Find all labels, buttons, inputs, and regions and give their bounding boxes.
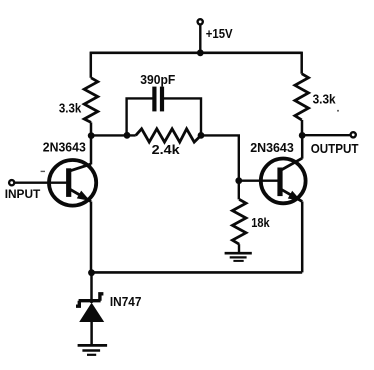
wire node A horizontal bbox=[91, 134, 136, 136]
stray mark bbox=[41, 170, 45, 172]
node Q2 base dot bbox=[235, 177, 242, 184]
Q2 emitter diagonal bbox=[280, 189, 302, 202]
wire Q2 emitter vertical bbox=[301, 202, 304, 273]
Q2 emitter arrow bbox=[288, 191, 301, 201]
transistor Q2 2N3643 (right) bbox=[261, 159, 306, 204]
terminal +15V bbox=[198, 19, 203, 24]
wire node A to Q2 base column bbox=[201, 135, 239, 180]
wire Q1 emitter vertical bbox=[90, 202, 93, 273]
Q2 base bar bbox=[277, 168, 282, 197]
transistor Q1 2N3643 (left) bbox=[49, 160, 96, 206]
wire zener bottom lead bbox=[90, 322, 93, 345]
wire R3 bottom lead bbox=[301, 120, 304, 135]
svg-text:2N3643: 2N3643 bbox=[43, 141, 86, 155]
wire zener top lead bbox=[90, 272, 93, 303]
Q1 collector diagonal bbox=[69, 164, 91, 171]
wire INPUT to Q1 base bbox=[15, 181, 67, 183]
svg-text:3.3k: 3.3k bbox=[313, 91, 337, 106]
node zener junction bbox=[88, 269, 95, 276]
capacitor C1 plates 390pF bbox=[152, 87, 156, 112]
ground for R4 bbox=[225, 252, 252, 255]
resistor R3 3.3k (right) bbox=[295, 74, 309, 120]
svg-text:3.3k: 3.3k bbox=[59, 101, 82, 116]
wire Q2 collector vertical bbox=[301, 135, 304, 158]
wire Q2 base bbox=[239, 179, 278, 181]
svg-text:IN747: IN747 bbox=[110, 294, 141, 309]
resistor R2 2.4k bbox=[136, 129, 201, 142]
node output dot bbox=[299, 132, 306, 139]
node supply junction bbox=[197, 49, 204, 56]
terminal INPUT bbox=[9, 180, 14, 185]
wire +15V stub bbox=[199, 25, 201, 53]
svg-text:+15V: +15V bbox=[206, 26, 233, 41]
Q2 collector diagonal bbox=[280, 158, 302, 170]
wire R1 bottom lead bbox=[90, 122, 93, 135]
wire top supply rail bbox=[90, 51, 302, 54]
wire R4 bottom lead bbox=[238, 244, 240, 253]
node A dot bbox=[88, 132, 95, 139]
terminal OUTPUT bbox=[351, 132, 356, 137]
svg-text:INPUT: INPUT bbox=[5, 187, 41, 201]
wire right drop to R3 bbox=[300, 52, 303, 74]
zener D1 anode triangle bbox=[79, 303, 104, 322]
resistor R1 3.3k (left) bbox=[84, 78, 98, 123]
svg-text:390pF: 390pF bbox=[140, 72, 175, 87]
wire Q2 base node down to R4 bbox=[238, 181, 240, 200]
resistor R4 18k bbox=[232, 199, 246, 244]
node cap left dot bbox=[124, 132, 131, 139]
stray speck bbox=[337, 110, 339, 112]
zener D1 IN747 cathode bar bbox=[79, 299, 101, 302]
Q1 emitter arrow bbox=[77, 191, 90, 201]
wire bottom rail bbox=[91, 271, 302, 274]
svg-text:OUTPUT: OUTPUT bbox=[311, 141, 359, 156]
svg-text:2.4k: 2.4k bbox=[152, 142, 181, 157]
ground for zener bbox=[78, 344, 108, 347]
svg-text:18k: 18k bbox=[251, 216, 270, 230]
wire to OUTPUT terminal bbox=[302, 134, 350, 136]
Q1 emitter diagonal bbox=[70, 189, 92, 202]
wire Q1 collector vertical bbox=[90, 135, 93, 164]
svg-text:2N3643: 2N3643 bbox=[250, 141, 294, 155]
capacitor C1 right leg bbox=[164, 98, 201, 135]
Q1 base bar bbox=[66, 168, 71, 197]
wire left drop to R1 bbox=[90, 52, 93, 78]
node cap right dot bbox=[198, 132, 205, 139]
capacitor C1 left leg bbox=[127, 98, 153, 135]
